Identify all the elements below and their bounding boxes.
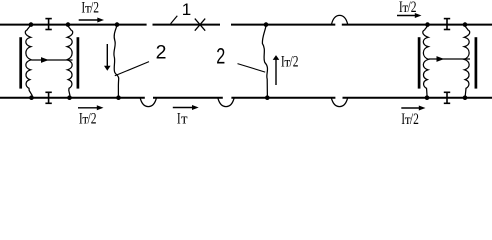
fault mark X on line 1 — [195, 19, 205, 31]
transformer T1 left winding — [25, 26, 32, 98]
node: bottom bus / T1 right winding — [67, 95, 72, 100]
wire: crossover hop 3 on bottom bus — [331, 98, 347, 107]
transformer T2 internal current arrow — [429, 56, 470, 62]
label It/2 top-left — [81, 0, 99, 17]
wire: bottom bus segment B — [153, 97, 223, 99]
node: top bus / jumper 2 left — [115, 22, 120, 27]
jumper 2 (right flexible link) — [262, 26, 267, 98]
current arrow It/2 top-right — [397, 13, 422, 18]
wire: bottom bus segment D (right) — [343, 97, 492, 99]
breaker B1 (top-left link symbol) — [45, 19, 51, 30]
svg-text:/2: /2 — [410, 111, 419, 127]
leader line for right label 2 — [238, 64, 266, 73]
transformer T1 internal current arrow — [31, 57, 72, 63]
breaker B3 (top-right link symbol) — [444, 19, 450, 30]
label It/2 top-right — [399, 0, 417, 16]
leader line for label 1 — [171, 16, 178, 24]
label It/2 at right jumper — [281, 54, 299, 71]
jumper 2 (left flexible link) — [114, 26, 119, 98]
transformer T1 left core bar — [19, 37, 22, 88]
transformer T1 right core bar — [77, 37, 80, 88]
node: top bus / T1 left winding — [29, 22, 34, 27]
current arrow It bottom-middle — [173, 105, 199, 110]
wire: bottom bus segment A (left) — [0, 97, 145, 99]
wire: top bus segment A (left) — [0, 24, 147, 26]
wire: crossover hop on top bus — [331, 15, 347, 24]
node: top bus / jumper 2 right — [264, 22, 269, 27]
svg-text:/2: /2 — [88, 111, 97, 127]
wire: top bus segment B (line 1 section with fault) — [153, 24, 221, 26]
transformer T2 right core bar — [475, 37, 478, 88]
current arrow (up) beside right jumper, It/2 — [273, 55, 280, 85]
breaker B2 (bottom-left link symbol) — [45, 92, 51, 103]
current arrow It/2 bottom-right — [401, 106, 425, 111]
svg-text:2: 2 — [156, 42, 167, 64]
svg-text:/2: /2 — [90, 0, 99, 17]
node: bottom bus / jumper 2 left — [116, 95, 121, 100]
transformer T1 right winding — [67, 26, 73, 98]
wire: bottom bus segment C — [231, 97, 335, 99]
label It/2 bottom-left — [79, 111, 97, 128]
svg-text:/2: /2 — [408, 0, 417, 16]
label It/2 bottom-right — [401, 111, 419, 128]
current arrow It/2 bottom-left — [78, 105, 104, 110]
transformer T2 right winding — [464, 26, 470, 98]
node: bottom bus / T1 left winding — [29, 95, 34, 100]
transformer T2 left winding — [423, 26, 429, 98]
transformer T2 left core bar — [418, 37, 421, 88]
node: top bus / T1 right winding — [66, 22, 71, 27]
node: bottom bus / jumper 2 right — [265, 95, 270, 100]
node: bottom bus / T2 left winding — [425, 95, 430, 100]
current arrow (down) beside left jumper — [104, 44, 111, 71]
node: bottom bus / T2 right winding — [463, 95, 468, 100]
wire: crossover hop 2 on bottom bus — [218, 98, 234, 107]
leader line for left label 2 — [115, 62, 149, 76]
current arrow It/2 top-left — [79, 18, 104, 23]
wire: crossover hop 1 on bottom bus — [140, 98, 156, 107]
label It bottom-middle — [177, 111, 188, 128]
svg-text:2: 2 — [216, 44, 225, 69]
svg-text:1: 1 — [182, 0, 191, 19]
node: top bus / T2 left winding — [425, 22, 430, 27]
breaker B4 (bottom-right link symbol) — [444, 92, 450, 103]
svg-text:/2: /2 — [290, 54, 299, 71]
node: top bus / T2 right winding — [463, 22, 468, 27]
wire: top bus segment D (right) — [342, 24, 492, 26]
wire: top bus segment C — [231, 24, 335, 26]
svg-text:т: т — [181, 111, 188, 127]
